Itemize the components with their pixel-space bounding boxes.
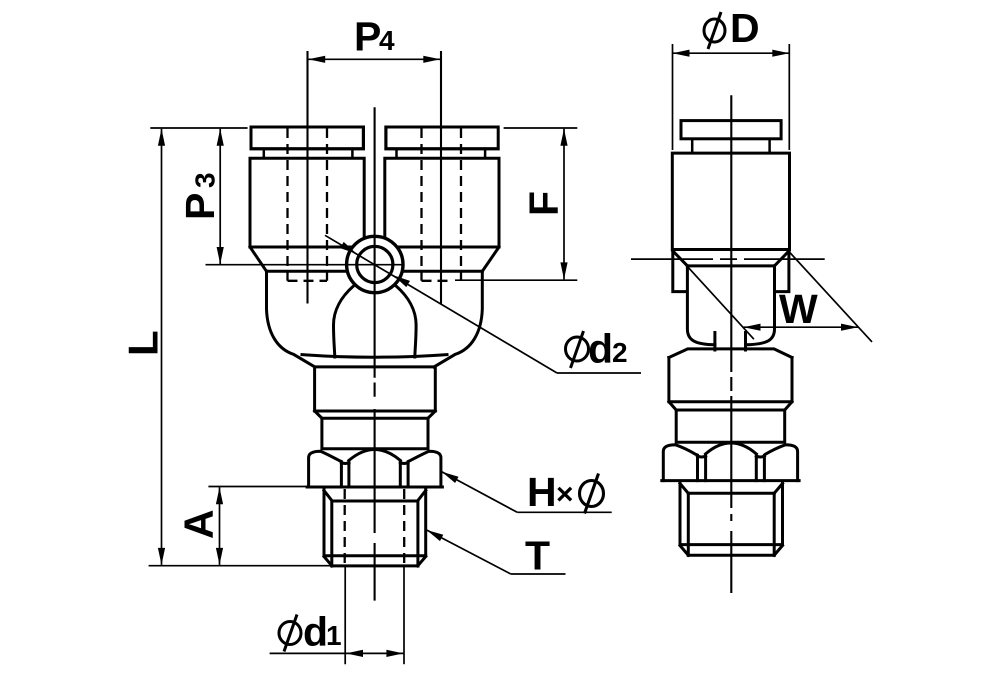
center circle outer (release ring) xyxy=(347,236,403,292)
side shoulder taper left xyxy=(673,251,688,266)
side block taper right xyxy=(785,402,792,410)
side main cylinder xyxy=(672,153,789,249)
left connector body xyxy=(250,127,375,247)
dimension phi-d1 xyxy=(270,566,404,664)
dimension W xyxy=(674,251,872,342)
svg-text:1: 1 xyxy=(326,620,342,651)
mid block xyxy=(315,367,436,411)
svg-text:2: 2 xyxy=(612,337,628,368)
collar top line xyxy=(267,270,483,273)
side dome right wall and arc xyxy=(746,266,775,345)
left body bottom chamfer xyxy=(250,247,267,271)
right connector body xyxy=(375,127,499,247)
side thread section xyxy=(680,482,783,555)
front center axis xyxy=(374,107,376,600)
right collet cap xyxy=(386,127,498,158)
side block taper left xyxy=(669,402,676,410)
side shoulder taper right xyxy=(775,251,789,266)
svg-text:A: A xyxy=(176,509,222,539)
left Y inner curve xyxy=(334,286,354,357)
thread bore hidden lines xyxy=(345,489,405,566)
right body bottom chamfer xyxy=(482,247,499,271)
dimension P4 xyxy=(308,14,440,63)
dimension P3 xyxy=(177,129,224,264)
side left ear xyxy=(673,251,687,292)
dimension A xyxy=(176,487,309,565)
svg-text:T: T xyxy=(525,533,550,579)
svg-text:3: 3 xyxy=(190,172,221,188)
svg-text:H: H xyxy=(527,469,557,515)
svg-text:P: P xyxy=(177,193,223,220)
svg-text:×: × xyxy=(556,478,574,511)
svg-text:W: W xyxy=(779,286,818,332)
side collar trapezoid xyxy=(669,349,792,358)
side block xyxy=(669,358,792,402)
right tube bore hidden lines xyxy=(422,128,462,281)
left bell profile xyxy=(267,271,315,367)
side bore left wall xyxy=(713,333,716,351)
left collet cap xyxy=(251,127,363,158)
cylinder above hex xyxy=(322,418,428,449)
leader T xyxy=(427,530,566,579)
left tube axis xyxy=(306,51,308,304)
side cylinder above hex xyxy=(676,410,785,442)
hex nut front xyxy=(307,450,442,488)
side hex nut xyxy=(662,443,799,481)
svg-text:d: d xyxy=(588,326,613,372)
svg-text:L: L xyxy=(120,330,167,356)
svg-text:D: D xyxy=(730,5,760,51)
side collar top line xyxy=(687,264,774,267)
block-to-cylinder taper right xyxy=(428,411,435,418)
thread section front xyxy=(324,489,426,566)
left tube bore hidden lines xyxy=(288,128,328,281)
side collet cap xyxy=(681,121,781,154)
side horizontal centerline xyxy=(631,258,825,260)
svg-text:F: F xyxy=(521,191,567,216)
svg-text:4: 4 xyxy=(379,25,395,56)
side dome left wall and arc xyxy=(687,266,715,345)
block-to-cylinder taper left xyxy=(315,411,322,418)
dimension F xyxy=(455,128,577,280)
dimension phi-d2 leader xyxy=(325,235,641,373)
center circle inner xyxy=(357,246,393,282)
right Y inner curve xyxy=(396,286,416,357)
right tube axis xyxy=(440,51,442,304)
side right ear xyxy=(775,251,789,292)
side center axis xyxy=(730,95,732,593)
dimension L xyxy=(120,128,332,566)
dome bottom edge xyxy=(302,355,447,358)
circle horizontal centerline xyxy=(206,264,405,266)
dimension phi-D xyxy=(673,5,790,150)
right bell profile xyxy=(434,271,482,367)
side bore right wall xyxy=(744,333,747,351)
svg-text:P: P xyxy=(354,14,381,60)
leader H-x-phi xyxy=(442,469,612,515)
svg-text:d: d xyxy=(303,609,328,655)
